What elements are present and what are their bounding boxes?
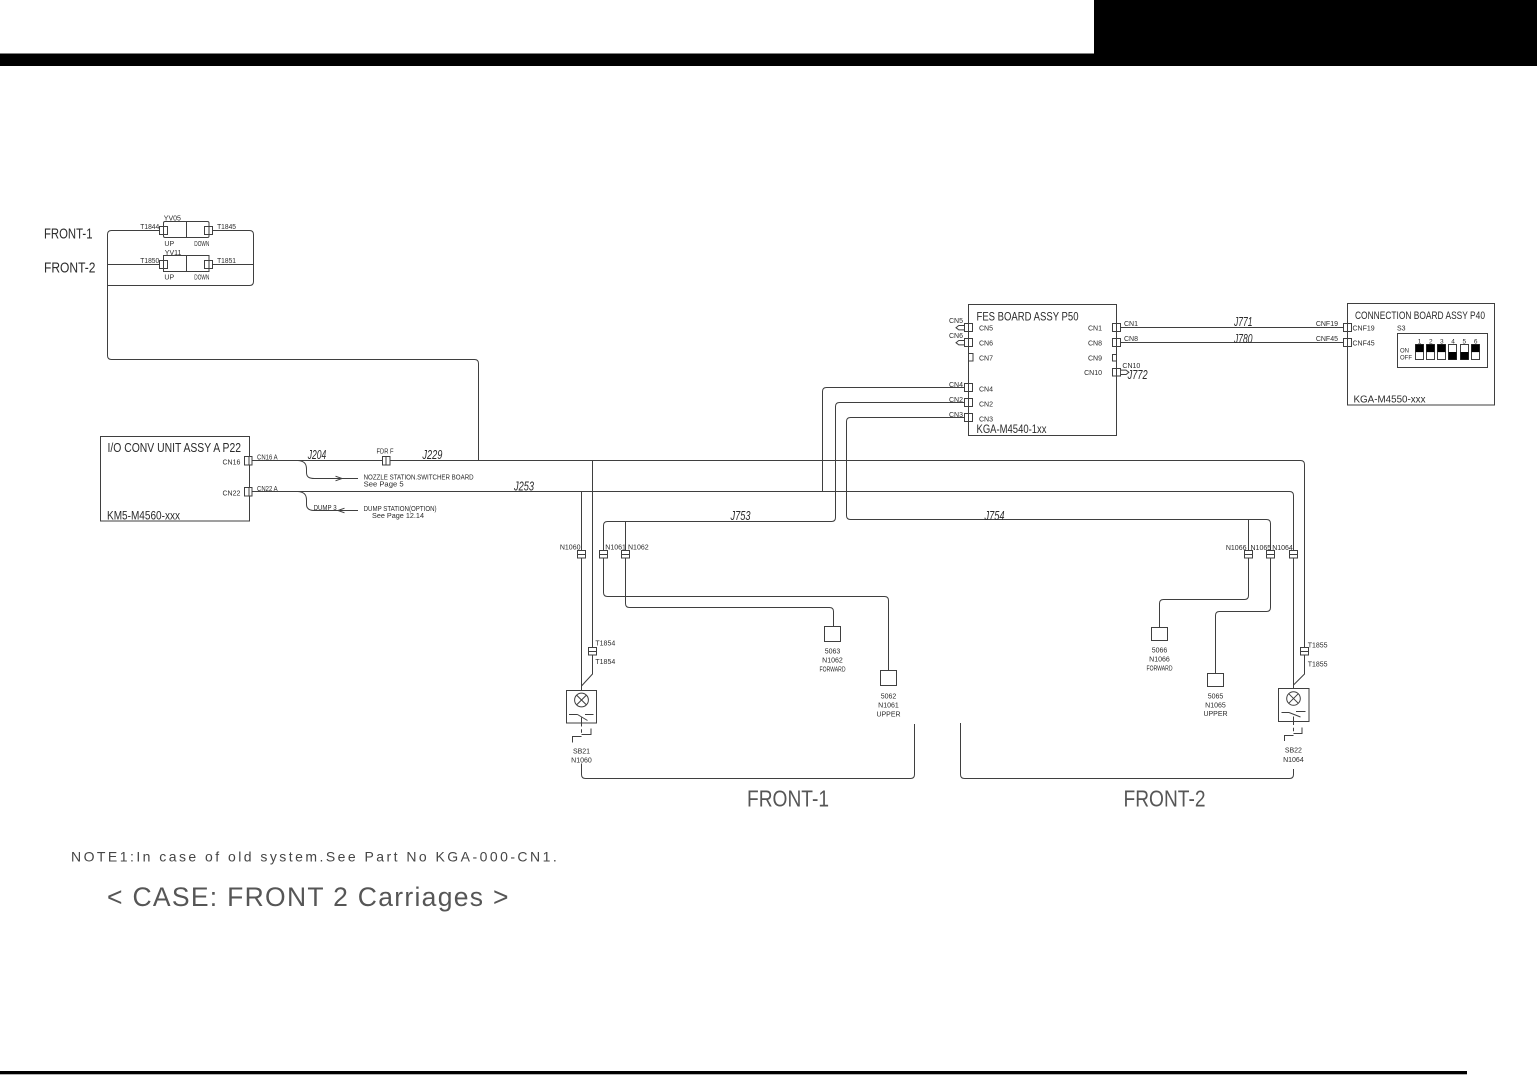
title block [1094,0,1537,66]
svg-text:N1065: N1065 [1205,703,1226,710]
connector CN8 [1113,339,1121,347]
svg-text:SB22: SB22 [1285,748,1302,755]
svg-text:J253: J253 [513,479,534,494]
connector CN3 [965,414,973,422]
svg-text:CN6: CN6 [979,340,993,347]
connector FDR F [383,457,391,466]
svg-text:FRONT-2: FRONT-2 [1124,786,1206,812]
svg-text:N1062: N1062 [628,544,649,551]
svg-text:CN2: CN2 [949,397,963,404]
connector N1060 [578,551,586,559]
svg-text:See Page 5: See Page 5 [364,482,404,489]
unit I/O CONV UNIT ASSY A P22 [101,437,250,522]
svg-text:UPPER: UPPER [1203,711,1227,718]
arrow nozzle [336,476,343,481]
terminal T1851 [205,261,213,269]
svg-text:See Page 12.14: See Page 12.14 [372,513,424,520]
connector CN5 [965,324,973,332]
svg-text:T1851: T1851 [217,258,236,265]
svg-text:N1066: N1066 [1226,545,1247,552]
svg-text:N1062: N1062 [822,657,843,664]
svg-text:CN7: CN7 [979,355,993,362]
svg-text:OFF: OFF [1400,356,1412,362]
connector N1062 [622,551,630,559]
wire J229 net (CN16 to T1855) [252,461,1305,689]
svg-text:T1845: T1845 [217,224,236,231]
svg-text:S3: S3 [1397,326,1406,333]
connector CN10 [1113,369,1121,377]
connector CNF19 [1344,324,1352,332]
valve YV05 body [164,222,210,238]
wire J780 [1121,342,1344,344]
disconnect marks SB21 [573,729,592,743]
sensor 5066 [1152,628,1168,641]
connector CN6 [965,339,973,347]
connector T1854 [589,648,597,656]
wire N1062 branch to 5063 [626,522,834,627]
svg-text:T1854: T1854 [595,641,615,648]
svg-text:CN22: CN22 [222,491,240,498]
svg-text:5062: 5062 [881,694,897,701]
wire N1060 drop [581,492,583,691]
wire SB21 dashed lead [581,723,583,735]
svg-text:ON: ON [1400,348,1409,354]
svg-text:DOWN: DOWN [194,275,209,282]
connector CN22 [245,488,253,497]
svg-text:N1066: N1066 [1149,657,1170,664]
svg-text:CN16 A: CN16 A [257,454,278,461]
connector CN16 [245,457,253,466]
svg-text:UPPER: UPPER [876,711,900,718]
svg-text:KGA-M4540-1xx: KGA-M4540-1xx [977,422,1048,436]
svg-text:NOZZLE STATION.SWITCHER BOARD: NOZZLE STATION.SWITCHER BOARD [364,474,474,481]
svg-text:FRONT-1: FRONT-1 [747,786,829,812]
connector N1065 [1267,551,1275,559]
svg-text:5065: 5065 [1208,693,1224,700]
svg-text:J204: J204 [307,447,326,462]
svg-text:CN3: CN3 [949,412,963,419]
svg-text:T1855: T1855 [1308,662,1328,669]
board CONNECTION BOARD ASSY P40 [1348,304,1495,406]
svg-text:YV11: YV11 [165,250,182,257]
svg-text:J772: J772 [1127,367,1148,382]
board FES BOARD ASSY P50 [969,305,1117,436]
svg-text:CN3: CN3 [979,417,993,424]
svg-text:CN8: CN8 [1124,336,1138,343]
wire J771 [1121,327,1344,329]
wire T1845 return loop [108,231,254,286]
svg-text:UP: UP [164,241,174,248]
wire dump branch [298,492,358,511]
svg-text:CN4: CN4 [979,387,993,394]
connector N1064 [1290,551,1298,559]
svg-text:N1064: N1064 [1272,545,1293,552]
wire T1851 return [213,264,254,266]
bracket FRONT-1 [582,724,915,779]
svg-text:J771: J771 [1233,314,1252,329]
svg-text:CN10: CN10 [1084,370,1102,377]
svg-text:CN22 A: CN22 A [257,486,278,493]
svg-text:J753: J753 [730,508,751,523]
svg-text:CNF45: CNF45 [1316,336,1338,343]
svg-text:CNF19: CNF19 [1316,321,1338,328]
svg-text:CN4: CN4 [949,382,963,389]
terminal T1850 [160,261,168,269]
svg-text:FES BOARD ASSY P50: FES BOARD ASSY P50 [977,310,1079,324]
wire nozzle branch [298,461,358,479]
svg-text:T1855: T1855 [1308,642,1328,649]
svg-text:FRONT-2: FRONT-2 [44,261,96,277]
switch SB22 blade [1282,712,1306,722]
svg-text:FRONT-1: FRONT-1 [44,226,93,242]
svg-text:T1854: T1854 [595,659,615,666]
svg-text:N1064: N1064 [1283,757,1304,764]
sensor 5065 [1208,674,1224,687]
svg-text:N1065: N1065 [1251,545,1272,552]
svg-text:YV05: YV05 [164,216,181,223]
svg-text:CN9: CN9 [1088,355,1102,362]
svg-text:CNF45: CNF45 [1353,341,1375,348]
svg-text:NOTE1:In case of old system.Se: NOTE1:In case of old system.See Part No … [71,849,559,865]
disconnect marks SB22 [1285,728,1303,742]
connector N1066 [1245,551,1253,559]
svg-text:CONNECTION BOARD ASSY P40: CONNECTION BOARD ASSY P40 [1355,310,1485,322]
svg-text:DUMP STATION(OPTION): DUMP STATION(OPTION) [364,506,437,513]
svg-text:CN1: CN1 [1124,321,1138,328]
connector T1855 [1301,648,1309,656]
svg-text:T1844: T1844 [140,224,159,231]
svg-text:CN16: CN16 [222,460,240,467]
svg-text:< CASE: FRONT 2 Carriages >: < CASE: FRONT 2 Carriages > [107,882,510,912]
bracket FRONT-2 [961,723,1294,779]
wire CN4 branch [823,388,965,492]
terminal T1845 [205,227,213,235]
svg-text:CN1: CN1 [1088,325,1102,332]
svg-text:CNF19: CNF19 [1353,326,1375,333]
wire FRONT-1 harness (left vertical to J229) [108,231,479,461]
svg-text:J780: J780 [1233,331,1253,346]
svg-text:N1060: N1060 [560,544,581,551]
lamp SB22 [1279,689,1310,722]
sensor 5062 [881,671,897,686]
svg-text:CN5: CN5 [949,318,963,325]
connector CN1 [1113,324,1121,332]
wire SB22 dashed lead [1293,722,1295,734]
wire J754 bundle (CN3 to 5065) [847,418,1271,674]
wire J753 bundle (CN2 to 5062) [604,403,965,671]
svg-text:KGA-M4550-xxx: KGA-M4550-xxx [1354,394,1427,406]
wire J253 net (CN22 to N1064) [252,492,1294,689]
connector N1061 [600,551,608,559]
svg-text:T1850: T1850 [140,258,159,265]
svg-text:CN5: CN5 [979,325,993,332]
switch SB21 blade [569,715,594,724]
svg-text:DUMP 3: DUMP 3 [314,505,337,512]
svg-text:UP: UP [164,275,174,282]
svg-text:N1061: N1061 [878,703,899,710]
svg-text:DOWN: DOWN [194,241,209,248]
svg-text:SB21: SB21 [573,748,590,755]
sensor 5063 [825,627,841,642]
connector CNF45 [1344,339,1352,347]
connector CN2 [965,399,973,407]
svg-text:J229: J229 [422,447,443,462]
lamp SB21 [567,691,597,724]
bottom rule [0,1071,1467,1074]
wire N1066 branch to 5066 [1160,520,1249,628]
svg-text:J754: J754 [984,508,1005,523]
svg-text:FORWARD: FORWARD [820,666,846,673]
terminal T1844 [160,227,168,235]
svg-text:CN8: CN8 [1088,340,1102,347]
title bar [0,54,1537,67]
valve YV11 body [164,256,210,272]
connector CN9 [1113,355,1117,362]
svg-text:I/O CONV UNIT ASSY A P22: I/O CONV UNIT ASSY A P22 [108,441,242,455]
svg-text:5066: 5066 [1152,647,1168,654]
arrow dump [338,508,345,513]
svg-text:FORWARD: FORWARD [1147,665,1173,672]
connector CN4 [965,384,973,392]
wire T1854 drop [582,461,593,691]
svg-text:FDR F: FDR F [377,449,394,456]
wire FRONT-2 to harness [108,264,160,266]
svg-text:CN2: CN2 [979,402,993,409]
svg-text:KM5-M4560-xxx: KM5-M4560-xxx [107,510,180,523]
connector CN7 [969,354,974,362]
svg-text:CN6: CN6 [949,333,963,340]
svg-text:5063: 5063 [825,648,841,655]
